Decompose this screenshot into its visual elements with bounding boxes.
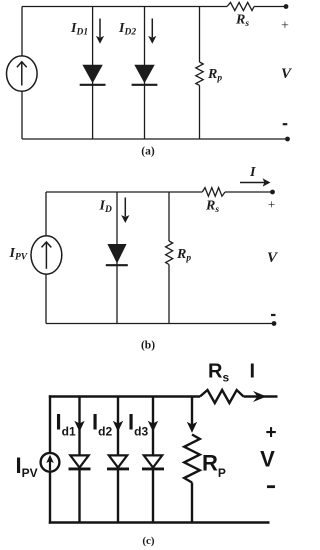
- current source arrow (c): [46, 455, 54, 471]
- wire: (a) Rp branch lower: [199, 85, 201, 139]
- diode D2 (a): [132, 65, 158, 85]
- svg-text:+: +: [265, 423, 276, 444]
- wire: (c) Rp branch upper: [191, 397, 193, 426]
- current arrow ID2 (a): [148, 19, 156, 44]
- svg-text:+: +: [281, 19, 289, 34]
- wire: (a) diode branch 2 vertical: [144, 7, 146, 140]
- current arrow Id2 on branch 2 (c): [113, 421, 123, 432]
- wire: (a) left vertical lower: [21, 91, 23, 139]
- current source circle IPV (c): [41, 453, 60, 472]
- wire: (a) diode branch 1 vertical: [92, 7, 94, 140]
- svg-text:(c): (c): [142, 535, 155, 547]
- wire: (b) top wire left section: [46, 191, 202, 193]
- node terminal dot bottom right (a): [285, 137, 290, 142]
- node terminal dot bottom right (b): [272, 321, 277, 326]
- diode D1 (c): [69, 455, 91, 469]
- diode D1 (a): [80, 65, 106, 85]
- node terminal dot top right (a): [284, 4, 289, 9]
- wire: (c) top wire right with output: [244, 395, 278, 397]
- current source arrow (a): [17, 62, 27, 86]
- wire: (c) left vertical lower: [49, 472, 51, 524]
- wire: (b) diode branch vertical: [116, 192, 118, 324]
- label minus terminal (b): [271, 314, 276, 316]
- current arrow Id3 on branch 3 (c): [148, 421, 158, 432]
- wire: (b) left vertical upper: [45, 192, 47, 236]
- wire: (c) Rp branch lower: [191, 483, 193, 523]
- wire: (c) diode branch 1 vertical: [78, 397, 80, 456]
- wire: (c) diode branch 3 vertical: [152, 397, 154, 456]
- current arrow ID (b): [121, 198, 129, 224]
- current source circle IPV (b): [31, 236, 62, 274]
- wire: (b) left vertical lower: [45, 274, 47, 323]
- label minus terminal (c): [267, 485, 275, 488]
- wire: (a) Rp branch upper: [199, 7, 201, 63]
- diode D2 (c): [107, 455, 129, 469]
- wire: (c) top wire left section: [49, 395, 200, 397]
- svg-text:I: I: [250, 361, 256, 383]
- wire: (a) top wire left section: [22, 6, 227, 8]
- wire: (b) Rp branch lower: [168, 265, 170, 324]
- svg-text:+: +: [268, 197, 275, 212]
- wire: (b) bottom wire: [46, 323, 274, 325]
- current source circle (a): [6, 56, 37, 91]
- wire: (c) bottom wire: [49, 521, 270, 523]
- resistor Rs (c): [200, 390, 244, 403]
- svg-text:(b): (b): [141, 340, 155, 352]
- output current arrow I (b): [240, 178, 271, 186]
- diode D (b): [106, 244, 128, 265]
- wire: (b) top wire right section: [225, 191, 273, 193]
- resistor Rp (c): [184, 435, 200, 483]
- current arrow Id1 on branch 1 (c): [74, 421, 84, 432]
- wire: (c) left vertical upper: [49, 395, 51, 453]
- resistor Rs (b): [202, 188, 225, 197]
- current arrow ID1 (a): [96, 19, 104, 44]
- svg-text:V: V: [260, 447, 275, 472]
- output current arrow I on top wire (c): [253, 391, 267, 402]
- svg-text:(a): (a): [141, 146, 155, 158]
- label minus terminal (a): [283, 123, 288, 125]
- node terminal dot top right (b): [270, 190, 275, 195]
- resistor Rp (b): [166, 241, 173, 265]
- wire: (a) left vertical upper: [21, 7, 23, 57]
- resistor Rp (a): [196, 62, 203, 85]
- svg-text:I: I: [249, 165, 256, 180]
- resistor Rs (a): [227, 2, 254, 10]
- diode D3 (c): [142, 455, 164, 469]
- wire: (a) bottom wire: [22, 138, 288, 140]
- wire: (c) diode branch 2 vertical: [117, 397, 119, 456]
- current source arrow (b): [42, 242, 52, 269]
- wire: (b) Rp branch upper: [168, 192, 170, 241]
- wire: (a) top wire right section: [254, 6, 287, 8]
- current arrow on Rp branch (c): [187, 422, 197, 433]
